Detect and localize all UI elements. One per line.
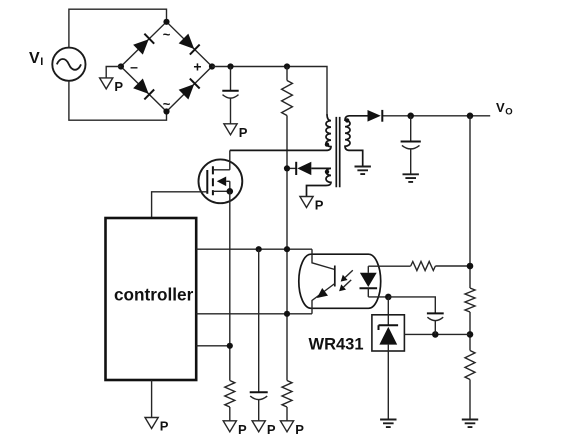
- optocoupler U2 body: [299, 254, 381, 308]
- ground P C1: [224, 124, 237, 135]
- earth ground rail: [462, 420, 478, 428]
- svg-text:+: +: [193, 58, 201, 74]
- wire pin2: [196, 313, 312, 315]
- wire HV rail: [212, 67, 327, 115]
- svg-text:–: –: [130, 58, 138, 74]
- svg-text:V: V: [496, 100, 505, 115]
- node WR431 cathode: [385, 294, 392, 301]
- svg-text:controller: controller: [114, 285, 194, 305]
- earth ground WR431: [380, 420, 396, 428]
- wire VO rail: [469, 116, 471, 420]
- ground P controller: [145, 418, 158, 429]
- ground P R3: [280, 421, 293, 432]
- ground P C2: [252, 421, 265, 432]
- wire gate: [152, 192, 208, 218]
- bridge diode D3: [133, 78, 154, 99]
- opto LED diode: [360, 266, 378, 297]
- bridge diode D2: [179, 33, 200, 54]
- bridge diode D4: [179, 79, 200, 100]
- node sense: [227, 343, 233, 349]
- node C2 top: [256, 246, 262, 252]
- svg-text:I: I: [40, 56, 43, 68]
- mosfet Q1: [199, 159, 243, 203]
- svg-text:P: P: [239, 125, 248, 140]
- polarity dot primary: [325, 142, 329, 146]
- label VO: [496, 100, 513, 118]
- wire WR431 cathode: [387, 297, 389, 325]
- svg-text:P: P: [238, 422, 247, 437]
- capacitor C1 input: [222, 67, 238, 124]
- label VI: [29, 50, 43, 68]
- ground P aux: [300, 197, 313, 208]
- node divider mid: [467, 331, 474, 338]
- wire secondary to output: [382, 115, 490, 117]
- svg-text:~: ~: [163, 97, 171, 112]
- node vcc rail pin1: [284, 246, 290, 252]
- wire drain: [229, 150, 231, 169]
- earth ground secondary: [355, 167, 371, 175]
- diode D6 aux: [287, 162, 311, 175]
- wire input bottom: [69, 81, 167, 120]
- capacitor C3 output: [401, 116, 421, 175]
- svg-text:~: ~: [163, 27, 171, 42]
- node bridge right: [209, 63, 215, 69]
- resistor R2 sense: [225, 381, 235, 408]
- wire WR431 anode: [387, 345, 389, 420]
- resistor R3: [282, 381, 292, 408]
- opto collector: [312, 249, 335, 269]
- svg-text:P: P: [295, 422, 304, 437]
- svg-text:V: V: [29, 50, 40, 67]
- ground P R2: [223, 421, 236, 432]
- bridge diode D1: [133, 34, 154, 55]
- opto light arrow 2: [344, 280, 352, 287]
- svg-text:P: P: [114, 79, 123, 94]
- wire LED anode out: [368, 265, 410, 267]
- node cap input: [227, 63, 233, 69]
- node bridge left: [118, 63, 124, 69]
- node aux diode: [284, 165, 290, 171]
- capacitor C2 vcc: [250, 249, 268, 421]
- resistor R1 startup: [282, 81, 293, 116]
- bridge rectifier outline: [121, 22, 212, 112]
- controller U1: [106, 218, 197, 380]
- transformer core: [336, 117, 339, 187]
- ground P bridge: [106, 67, 121, 78]
- transformer primary: [230, 114, 331, 150]
- node startup resistor: [284, 63, 290, 69]
- node bridge top: [163, 19, 169, 25]
- node vcc rail pin2: [284, 311, 290, 317]
- WR431 U3: [372, 315, 405, 351]
- wire controller bottom pin: [151, 380, 153, 418]
- node rail opto: [467, 263, 474, 270]
- polarity dot aux: [325, 170, 329, 174]
- wire input top: [69, 9, 167, 47]
- ac source VI: [52, 48, 85, 81]
- node bridge bottom: [163, 108, 169, 114]
- wire pin3 CS: [196, 345, 230, 347]
- opto base bar: [334, 266, 336, 287]
- transformer secondary: [345, 116, 368, 167]
- svg-text:P: P: [267, 422, 276, 437]
- wire pin1 FB: [196, 248, 312, 250]
- opto emitter: [312, 284, 335, 314]
- svg-text:P: P: [315, 198, 324, 213]
- opto light arrow 1: [345, 270, 353, 277]
- node rail top: [467, 113, 474, 120]
- resistor R6 divider bottom: [465, 351, 475, 380]
- wire source sense: [229, 191, 231, 380]
- resistor R5 divider top: [465, 288, 475, 312]
- svg-text:O: O: [505, 106, 512, 117]
- wire WR431 ref: [404, 333, 470, 335]
- node output: [407, 113, 414, 120]
- diode D5 output: [368, 110, 383, 122]
- svg-text:P: P: [160, 419, 169, 434]
- polarity dot secondary: [345, 118, 349, 122]
- opto emitter arrow: [317, 288, 328, 298]
- capacitor C4 comp: [388, 297, 443, 335]
- earth ground C3: [403, 174, 419, 182]
- svg-text:WR431: WR431: [309, 336, 364, 354]
- resistor R4 opto: [411, 262, 436, 271]
- wire LED cathode out: [368, 296, 388, 298]
- node C4 bottom: [432, 331, 439, 338]
- transformer aux winding: [307, 168, 332, 196]
